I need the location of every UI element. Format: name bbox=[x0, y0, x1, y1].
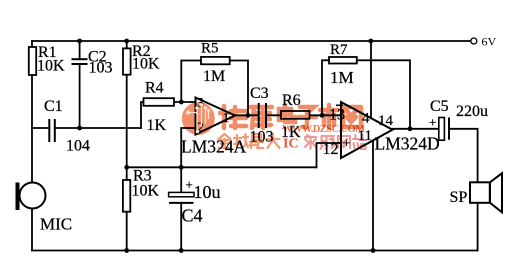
node R7 output junction bbox=[408, 126, 413, 131]
svg-text:6V: 6V bbox=[482, 35, 497, 49]
pin 13 minus sign bbox=[336, 105, 343, 107]
wire R5 left lead down to inverting input bbox=[180, 61, 182, 103]
resistor R2 bbox=[123, 43, 160, 75]
node C2 bottom bbox=[77, 126, 82, 131]
svg-text:C1: C1 bbox=[44, 98, 63, 115]
terminal 6V supply bbox=[471, 35, 497, 49]
svg-text:LM324D: LM324D bbox=[375, 134, 440, 154]
watermark char qiu bbox=[234, 134, 248, 148]
svg-text:103: 103 bbox=[89, 60, 113, 77]
svg-text:+: + bbox=[186, 177, 193, 192]
wire input node horizontal (C1 row) bbox=[32, 127, 141, 129]
svg-text:1M: 1M bbox=[330, 68, 354, 87]
wire U1A output to C3 bbox=[235, 114, 259, 116]
svg-text:MIC: MIC bbox=[40, 215, 72, 234]
svg-text:1M: 1M bbox=[203, 68, 225, 85]
watermark big characters row bbox=[220, 105, 361, 128]
wire C2 column bbox=[79, 41, 81, 128]
op-amp U1A LM324A bbox=[181, 96, 247, 157]
watermark char wang2 bbox=[338, 136, 350, 148]
wire R5 right lead down to U1A output bbox=[230, 61, 248, 116]
wire bottom ground rail bbox=[32, 250, 478, 252]
capacitor C4 electrolytic bbox=[169, 167, 221, 250]
svg-text:104: 104 bbox=[66, 138, 90, 155]
wire speaker to ground rail bbox=[477, 203, 479, 251]
watermark char da bbox=[267, 134, 280, 148]
watermark char quan bbox=[219, 134, 231, 148]
watermark char cai bbox=[305, 135, 316, 149]
wire U1A noninverting stub down to bias rail bbox=[181, 128, 195, 167]
capacitor C3 bbox=[250, 85, 274, 146]
watermark char wang bbox=[343, 107, 361, 127]
svg-text:R7: R7 bbox=[330, 42, 348, 58]
svg-text:SP: SP bbox=[450, 189, 468, 206]
capacitor C1 bbox=[44, 98, 90, 155]
junction node dots bbox=[77, 39, 412, 253]
svg-text:10u: 10u bbox=[194, 182, 221, 202]
node C4 bias rail bbox=[179, 165, 184, 170]
watermark char zi bbox=[298, 107, 316, 127]
wire C3 to R6 bbox=[266, 114, 281, 116]
resistor R3 bbox=[123, 168, 160, 212]
svg-text:WWW.DZSC.COM: WWW.DZSC.COM bbox=[282, 124, 365, 135]
capacitor C2 bbox=[72, 59, 88, 64]
resistor R6 bbox=[281, 92, 310, 141]
wire bias node rail (R3/C4 row) bbox=[127, 166, 317, 168]
svg-text:C5: C5 bbox=[430, 98, 449, 115]
watermark slogan row bbox=[219, 134, 280, 148]
wire R4 left lead bend bbox=[141, 102, 144, 128]
svg-text:R5: R5 bbox=[201, 41, 219, 57]
watermark char wei bbox=[220, 106, 246, 128]
watermark char ku bbox=[251, 107, 272, 128]
watermark char dian bbox=[279, 105, 295, 122]
watermark logo disc bbox=[182, 102, 215, 135]
wire left branch (R1/MIC column) bbox=[31, 41, 33, 251]
wire pin 12 stub to bias rail bbox=[317, 143, 342, 167]
resistor R5 bbox=[181, 41, 229, 86]
node R5 output junction bbox=[246, 113, 251, 118]
svg-text:1K: 1K bbox=[147, 117, 167, 134]
node C2 top rail bbox=[77, 39, 82, 44]
resistor R4 bbox=[144, 80, 175, 135]
svg-text:C3: C3 bbox=[250, 85, 269, 102]
wire R6 to pin 13 bbox=[310, 114, 342, 116]
resistor R1 bbox=[29, 44, 65, 75]
wire R7 right lead down to U1D output bbox=[357, 60, 410, 129]
capacitor C5 electrolytic bbox=[429, 98, 488, 140]
node R3 ground bbox=[124, 248, 129, 253]
node R2 top rail bbox=[124, 39, 129, 44]
wire pin 4 to supply bbox=[370, 41, 372, 118]
wire top supply rail bbox=[32, 40, 470, 42]
wire C5 to speaker column bbox=[450, 129, 478, 183]
svg-text:10K: 10K bbox=[132, 56, 160, 73]
speaker SP bbox=[450, 173, 503, 212]
wire R4 output to op-amp pin 2 bbox=[174, 101, 196, 103]
svg-text:C4: C4 bbox=[182, 206, 203, 226]
svg-text:10K: 10K bbox=[37, 58, 65, 75]
op-amp U1D LM324D bbox=[323, 102, 440, 158]
svg-text:14: 14 bbox=[378, 113, 394, 129]
svg-text:IC: IC bbox=[283, 137, 299, 152]
resistor R7 bbox=[322, 42, 357, 87]
node R5 input junction bbox=[179, 100, 184, 105]
node pin4 top rail bbox=[368, 39, 373, 44]
wire R7 left lead down to pin 13 bbox=[321, 60, 323, 115]
node bias rail left bbox=[124, 165, 129, 170]
svg-text:R4: R4 bbox=[145, 80, 164, 97]
wire R2/R3 bias column bbox=[126, 41, 128, 251]
watermark char zui bbox=[250, 134, 263, 148]
svg-text:10K: 10K bbox=[132, 183, 160, 200]
watermark char shi bbox=[320, 105, 338, 128]
wire U1D output to C5 bbox=[393, 128, 439, 130]
watermark char gou bbox=[321, 136, 334, 149]
wire pin 11 to ground bbox=[372, 141, 374, 251]
node R7 input junction bbox=[320, 113, 325, 118]
svg-text:220u: 220u bbox=[456, 103, 488, 120]
watermark char zhan bbox=[353, 135, 366, 149]
svg-text:+: + bbox=[429, 115, 436, 130]
node pin11 ground bbox=[371, 248, 376, 253]
node C4 ground bbox=[179, 248, 184, 253]
microphone MIC bbox=[16, 183, 73, 234]
